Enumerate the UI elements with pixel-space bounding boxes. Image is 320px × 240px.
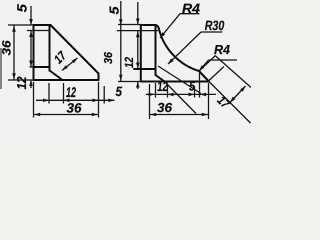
svg-text:R30: R30	[205, 18, 225, 33]
svg-text:5: 5	[15, 4, 30, 13]
svg-text:36: 36	[103, 51, 115, 64]
svg-text:12: 12	[14, 76, 29, 90]
svg-text:12: 12	[66, 84, 76, 100]
svg-text:5: 5	[116, 84, 123, 99]
svg-text:12: 12	[157, 79, 168, 94]
svg-text:36: 36	[157, 100, 173, 115]
svg-text:36: 36	[67, 101, 82, 116]
svg-text:5: 5	[107, 6, 122, 15]
svg-text:36: 36	[0, 40, 14, 55]
svg-text:R4: R4	[214, 42, 231, 57]
svg-text:12: 12	[122, 57, 136, 68]
